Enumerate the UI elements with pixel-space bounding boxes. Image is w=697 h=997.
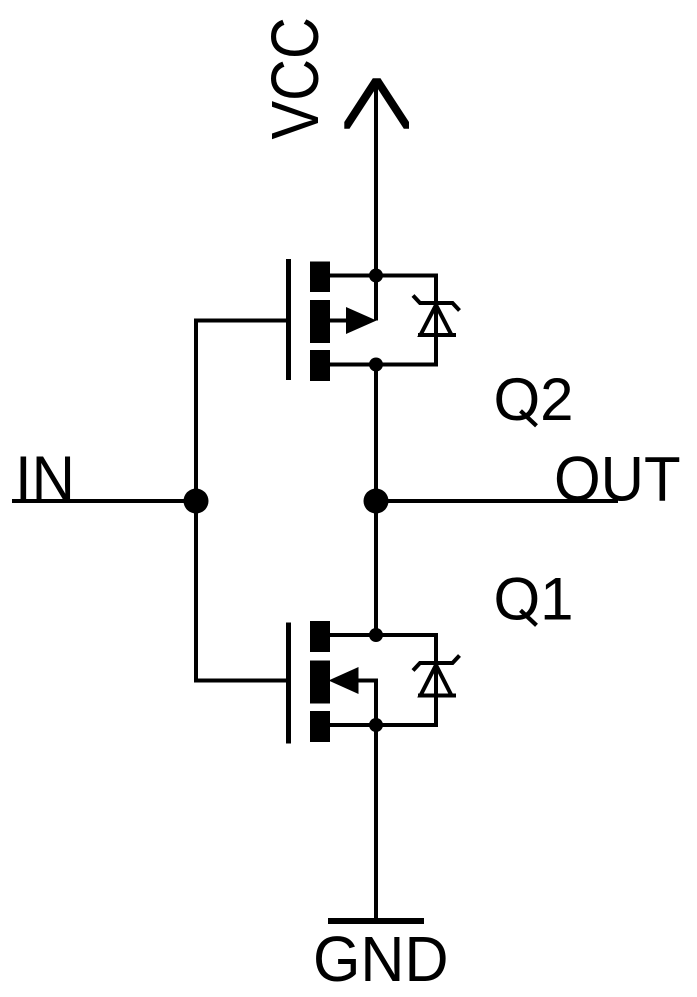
- svg-text:VCC: VCC: [258, 17, 333, 139]
- svg-text:GND: GND: [313, 924, 449, 996]
- svg-text:IN: IN: [15, 444, 75, 515]
- svg-text:OUT: OUT: [554, 444, 681, 515]
